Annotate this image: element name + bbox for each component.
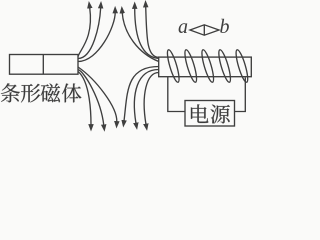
bar magnet divider: [42, 55, 44, 75]
coil turn 3: [200, 49, 216, 83]
coil turn 4: [217, 49, 233, 83]
label 电源: [191, 104, 230, 123]
power supply box: [185, 101, 235, 127]
label a: [178, 17, 188, 37]
coil turn 2: [183, 49, 199, 83]
field line bottom-right 3: [144, 73, 159, 125]
label b: [220, 17, 230, 37]
field line bottom-right 1: [124, 67, 159, 122]
field line top-left 2: [78, 8, 101, 59]
field line bottom-right 2: [134, 70, 158, 124]
field line bottom-left 2: [78, 70, 104, 126]
wire lead right: [235, 78, 246, 112]
field line top-right 2: [135, 8, 159, 59]
wire lead left: [168, 77, 185, 112]
field line top-left 1: [78, 8, 90, 57]
solenoid core: [159, 57, 252, 77]
label 条形磁体: [1, 83, 81, 102]
bar magnet body: [10, 55, 79, 75]
field line top-right 1: [122, 13, 159, 62]
field line top-left 3: [78, 12, 115, 61]
field line bottom-left 1: [78, 72, 91, 126]
coil turn 1: [165, 49, 181, 83]
field line top-right 3: [146, 7, 159, 58]
field line bottom-left 3: [78, 67, 117, 122]
coil turn 5: [234, 49, 250, 83]
compass needle between a and b: [190, 25, 219, 35]
